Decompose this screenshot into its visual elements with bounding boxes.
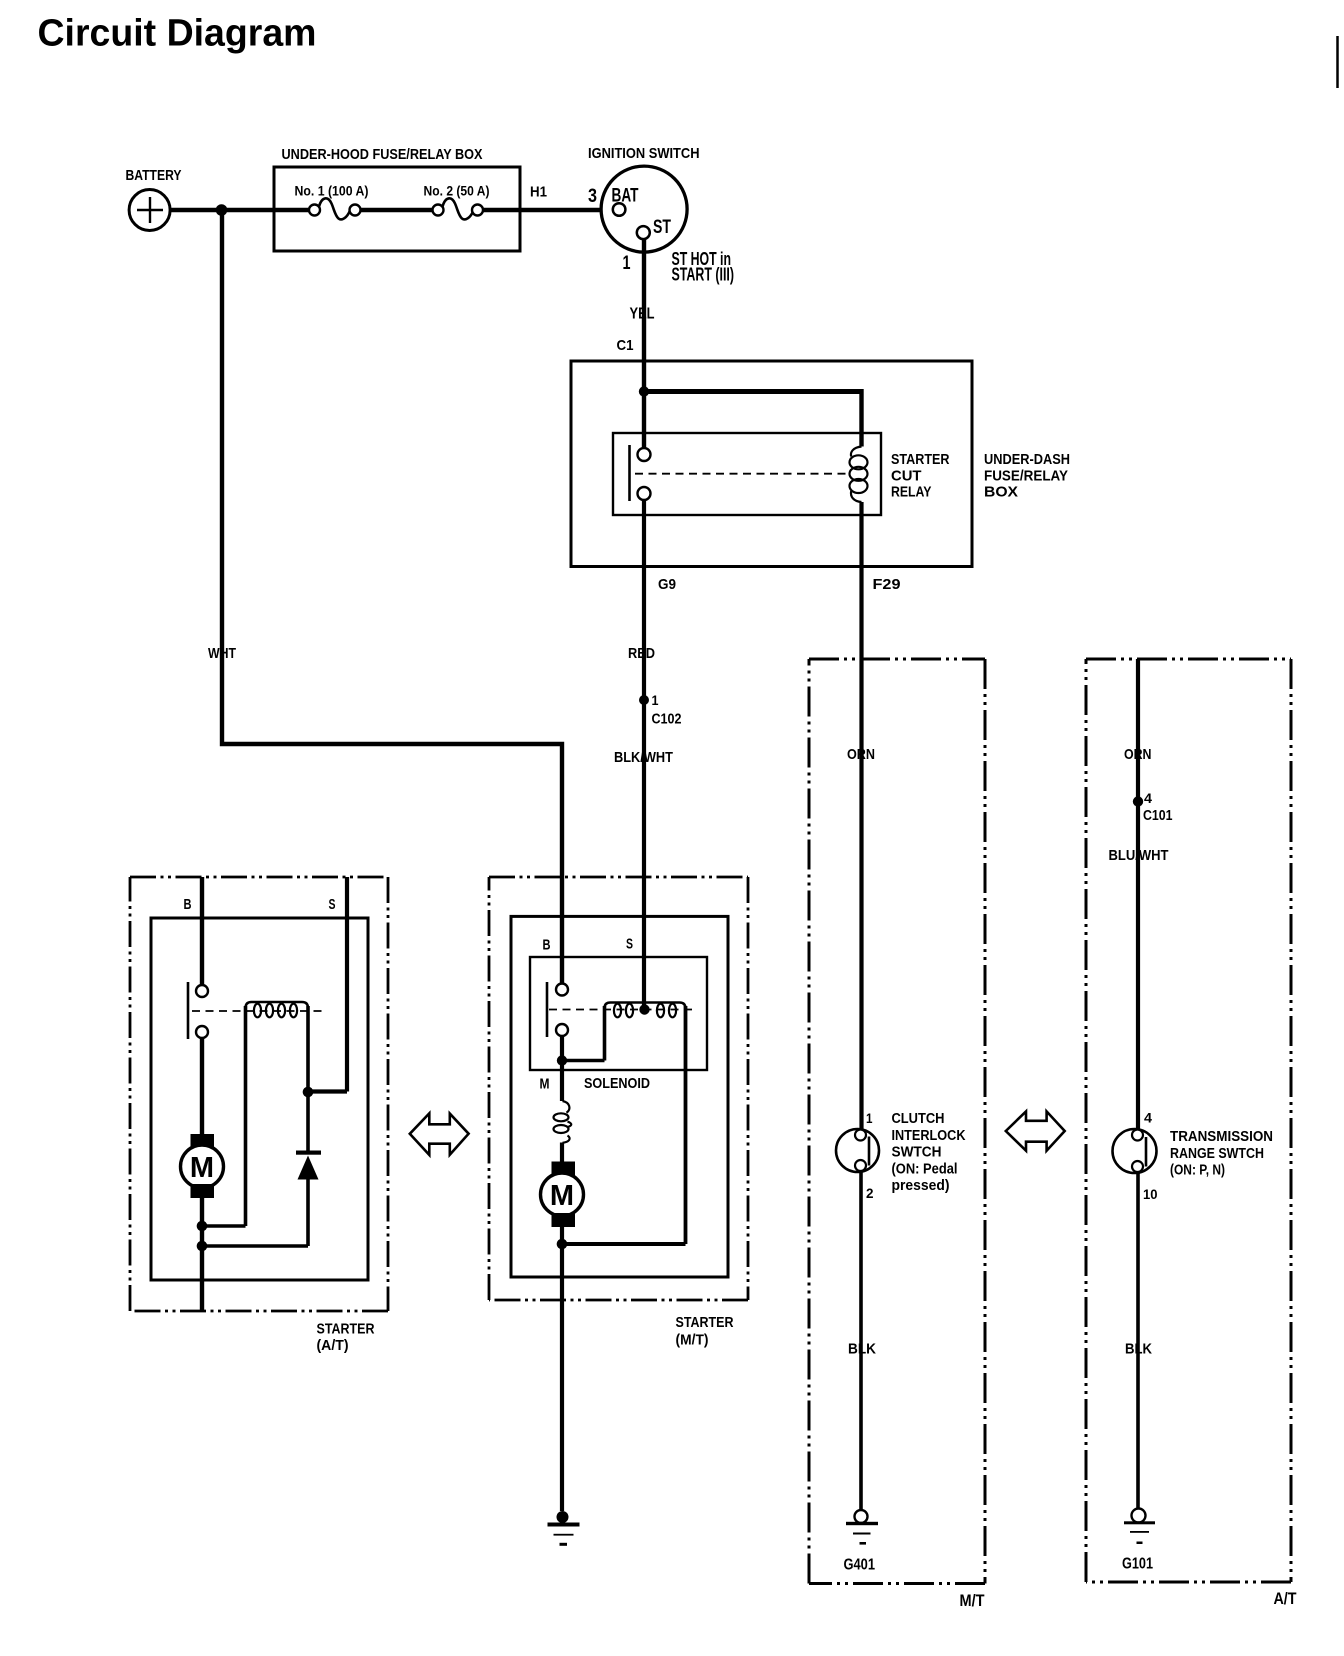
svg-text:INTERLOCK: INTERLOCK [892,1128,966,1144]
svg-text:RED: RED [628,645,655,662]
svg-text:BLK: BLK [848,1341,876,1358]
svg-text:G101: G101 [1122,1556,1153,1573]
svg-text:WHT: WHT [208,645,236,662]
svg-text:FUSE/RELAY: FUSE/RELAY [984,467,1068,484]
svg-text:B: B [184,897,192,913]
svg-text:4: 4 [1144,1110,1152,1126]
svg-text:M/T: M/T [960,1591,986,1610]
svg-text:STARTER: STARTER [676,1314,734,1331]
svg-text:(ON: Pedal: (ON: Pedal [892,1161,958,1177]
svg-text:4: 4 [1144,790,1152,806]
svg-text:RELAY: RELAY [891,484,932,501]
svg-text:UNDER-DASH: UNDER-DASH [984,451,1070,468]
svg-text:No. 1 (100 A): No. 1 (100 A) [295,184,369,199]
svg-text:BLU/WHT: BLU/WHT [1109,847,1169,864]
svg-text:C101: C101 [1143,808,1173,824]
svg-text:C1: C1 [617,337,634,354]
svg-text:M: M [550,1180,574,1212]
svg-text:G9: G9 [658,576,676,593]
svg-text:SOLENOID: SOLENOID [584,1075,650,1092]
svg-text:(A/T): (A/T) [317,1337,349,1354]
svg-text:F29: F29 [873,576,901,593]
svg-text:No. 2 (50 A): No. 2 (50 A) [424,184,490,199]
svg-text:Circuit Diagram: Circuit Diagram [38,13,317,55]
svg-text:S: S [329,897,336,913]
svg-text:1: 1 [866,1110,873,1126]
svg-text:CLUTCH: CLUTCH [892,1111,945,1127]
svg-text:M: M [540,1077,550,1093]
svg-text:1: 1 [652,692,659,708]
svg-text:B: B [543,938,551,954]
svg-text:2: 2 [866,1185,874,1201]
svg-text:(ON: P, N): (ON: P, N) [1170,1163,1225,1179]
svg-text:C102: C102 [652,712,682,728]
svg-text:(M/T): (M/T) [676,1332,709,1349]
svg-text:ORN: ORN [1124,746,1152,763]
svg-text:ST: ST [653,217,671,238]
svg-text:ORN: ORN [847,746,875,763]
svg-text:BOX: BOX [984,484,1018,501]
svg-text:pressed): pressed) [892,1178,950,1194]
svg-text:STARTER: STARTER [317,1321,375,1338]
svg-text:START (III): START (III) [672,265,735,285]
svg-text:A/T: A/T [1274,1589,1298,1608]
svg-text:H1: H1 [530,184,547,201]
svg-text:RANGE SWTCH: RANGE SWTCH [1170,1146,1264,1162]
svg-text:IGNITION SWITCH: IGNITION SWITCH [588,145,700,162]
svg-text:SWTCH: SWTCH [892,1145,942,1161]
svg-text:S: S [626,937,633,953]
svg-text:1: 1 [623,253,631,274]
svg-text:UNDER-HOOD FUSE/RELAY BOX: UNDER-HOOD FUSE/RELAY BOX [282,146,483,163]
svg-text:M: M [190,1152,214,1184]
svg-text:TRANSMISSION: TRANSMISSION [1170,1129,1273,1145]
svg-text:10: 10 [1143,1186,1158,1202]
svg-text:3: 3 [588,186,597,207]
svg-text:YEL: YEL [630,306,655,323]
svg-text:STARTER: STARTER [891,451,950,468]
svg-text:BLK/WHT: BLK/WHT [614,749,673,766]
svg-text:BLK: BLK [1125,1341,1152,1358]
svg-text:CUT: CUT [891,467,922,484]
svg-text:BATTERY: BATTERY [126,167,182,184]
svg-text:BAT: BAT [612,186,639,207]
svg-text:G401: G401 [844,1557,876,1574]
